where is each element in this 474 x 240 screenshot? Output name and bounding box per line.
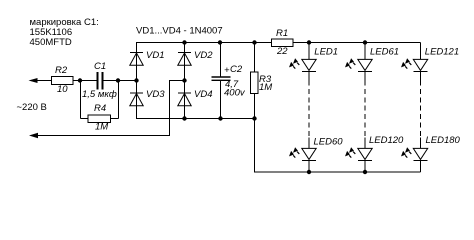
wire: top DC+ rail (R1 to LED121 corner): [293, 42, 421, 44]
wire: top DC+ rail (bridge to R1): [136, 42, 272, 44]
wire: LED1 dashed continuation: [308, 81, 310, 137]
wire: bridge left branch vertical: [136, 42, 138, 118]
svg-text:LED180: LED180: [426, 135, 461, 146]
svg-text:LED1: LED1: [314, 47, 338, 58]
junction node: C1/R4 right: [116, 78, 120, 82]
junction node: top rail / C2: [218, 40, 222, 44]
wire: C1 to bridge left branch: [104, 80, 137, 82]
svg-text:LED120: LED120: [369, 135, 404, 146]
wire: R4 bottom left lead: [81, 118, 89, 120]
diode VD2: [178, 53, 191, 66]
capacitor C2 (electrolytic): [212, 77, 231, 80]
wire: R3 branch top: [254, 43, 256, 73]
svg-text:VD4: VD4: [194, 89, 212, 100]
resistor R3: [251, 72, 259, 94]
svg-text:1M: 1M: [259, 82, 272, 93]
svg-text:R2: R2: [55, 65, 68, 76]
wire: R4 right vertical drop: [118, 81, 120, 119]
LED string 3: LED180: [401, 138, 428, 173]
junction node: bottom rail / VD4: [182, 116, 186, 120]
diode VD3: [130, 93, 143, 106]
LED string 2: LED120: [345, 138, 372, 173]
wire: AC2 from bridge right mid to lower run: [36, 81, 185, 136]
wire: C2 branch top: [220, 43, 222, 77]
junction node: top rail / LED61: [363, 40, 367, 44]
svg-text:400v: 400v: [224, 88, 246, 99]
wire: arrow to R2: [36, 80, 52, 82]
svg-text:C1: C1: [94, 61, 106, 72]
svg-text:1,5 мкф: 1,5 мкф: [82, 89, 117, 100]
svg-text:VD3: VD3: [146, 89, 165, 100]
svg-text:VD1: VD1: [146, 50, 164, 61]
svg-text:450MFTD: 450MFTD: [30, 37, 72, 48]
svg-text:R1: R1: [276, 28, 288, 39]
svg-text:LED60: LED60: [314, 137, 344, 148]
svg-text:10: 10: [57, 84, 68, 95]
junction node: return rail / LED60: [307, 170, 311, 174]
wire: C2 branch bottom: [220, 81, 222, 118]
svg-text:C2: C2: [230, 64, 243, 75]
svg-text:1M: 1M: [95, 122, 108, 133]
annotation: C1 marking text block: [30, 17, 99, 48]
capacitor C1: [98, 72, 103, 90]
svg-text:R4: R4: [94, 103, 106, 114]
AC input terminal arrow (bottom): [29, 133, 38, 138]
wire: R4 bottom right lead: [111, 118, 119, 120]
wire: bridge right branch vertical: [184, 42, 186, 118]
resistor R2: [52, 77, 74, 85]
junction node: bridge left mid (AC1): [134, 78, 138, 82]
resistor R4: [88, 115, 111, 123]
diode VD1: [130, 53, 143, 66]
svg-text:VD1...VD4 - 1N4007: VD1...VD4 - 1N4007: [136, 26, 223, 37]
wire: LED61 dashed continuation: [364, 81, 366, 137]
svg-text:~220 В: ~220 В: [17, 102, 47, 113]
wire: LED121 dashed continuation: [420, 81, 422, 137]
LED string 1: LED60: [289, 138, 316, 173]
svg-text:22: 22: [276, 46, 288, 57]
junction node: bottom rail / R3 corner: [252, 116, 256, 120]
junction node: bridge right mid (AC2): [182, 78, 186, 82]
wire: bottom DC- rail of bridge: [136, 118, 255, 120]
wire: DC- drop to LED return rail: [255, 119, 421, 173]
wire: R2 to C1: [73, 80, 97, 82]
LED string 1: LED1: [289, 43, 316, 81]
svg-text:LED121: LED121: [425, 47, 459, 58]
junction node: top rail / VD2: [182, 40, 186, 44]
junction node: return rail / LED120: [363, 170, 367, 174]
junction node: top rail / LED1: [307, 40, 311, 44]
LED string 3: LED121: [401, 43, 428, 81]
resistor R1: [272, 39, 294, 47]
LED string 2: LED61: [345, 43, 372, 81]
junction node: bottom rail / C2: [218, 116, 222, 120]
wire: R3 branch bottom: [254, 94, 256, 119]
junction node: R2/C1/R4: [78, 78, 82, 82]
svg-text:LED61: LED61: [370, 47, 399, 58]
AC input terminal arrow (top): [29, 78, 38, 83]
wire: R4 left vertical drop: [80, 81, 82, 119]
diode VD4: [178, 93, 191, 106]
svg-text:VD2: VD2: [194, 50, 213, 61]
junction node: top rail / R3: [252, 40, 256, 44]
